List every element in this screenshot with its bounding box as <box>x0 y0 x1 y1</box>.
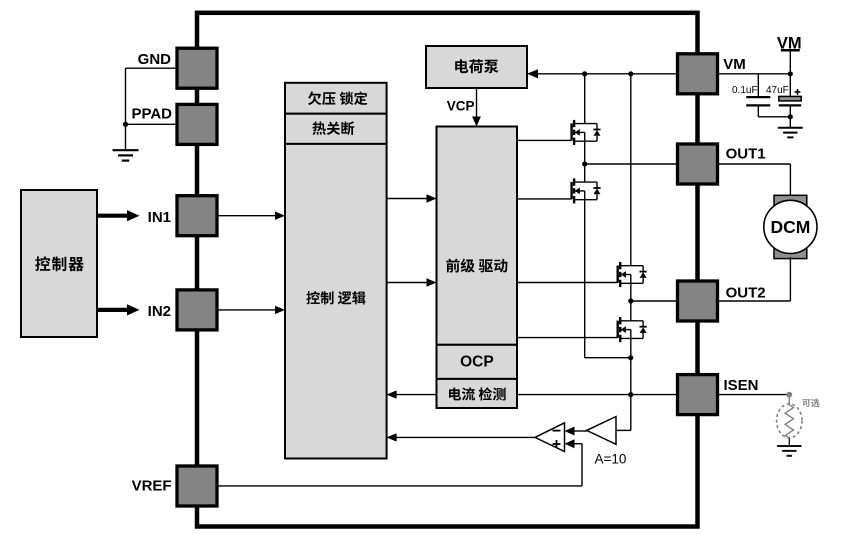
wire Q2 source down <box>584 200 586 358</box>
capacitor C2 47uF (electrolytic) <box>789 74 791 97</box>
wire ISEN node to buffer input <box>616 429 631 431</box>
svg-text:IN2: IN2 <box>148 303 171 320</box>
wire Q3 source to OUT2 node <box>630 283 632 321</box>
OCP block <box>437 345 518 379</box>
svg-text:OUT2: OUT2 <box>726 285 766 302</box>
wire OUT1 pin to motor <box>718 163 791 165</box>
wire VREF to plus input <box>218 485 582 487</box>
wire VM to Q1 drain <box>584 74 586 124</box>
pin IN2 <box>177 290 217 330</box>
svg-text:A=10: A=10 <box>595 452 627 467</box>
svg-text:VREF: VREF <box>132 478 172 495</box>
wire GND to external <box>126 67 178 69</box>
motor M1 body (DCM) <box>764 200 817 253</box>
svg-text:OUT1: OUT1 <box>726 145 766 162</box>
control logic block (控制逻辑) <box>285 144 387 459</box>
wire VM to Q3 drain <box>630 74 632 266</box>
motor brush top <box>774 195 807 205</box>
wire OUT2 pin to motor <box>718 300 791 302</box>
thick arrow controller to IN1 <box>97 214 127 218</box>
transistor Q3 (high-side OUT2) <box>617 266 619 283</box>
thick arrow controller to IN2 <box>97 308 127 312</box>
wire pre-driver to Q2 gate <box>517 198 572 200</box>
wire OUT1 node to OUT1 pin <box>585 163 678 165</box>
pin VM <box>678 54 718 94</box>
wire ISEN pin to sense resistor <box>718 394 790 396</box>
arrowhead into comparator minus <box>565 427 575 436</box>
control logic label 控制逻辑 <box>306 291 365 304</box>
wire GND-PPAD vertical <box>125 68 127 124</box>
svg-text:0.1uF: 0.1uF <box>732 85 758 96</box>
ground symbol (VM supply) <box>778 127 803 129</box>
svg-text:DCM: DCM <box>770 217 810 237</box>
UVLO label 欠压锁定 <box>308 92 367 106</box>
ground symbol (PPAD) <box>113 149 139 151</box>
wire plus input right <box>575 443 583 445</box>
arrowhead into comparator plus <box>565 439 575 448</box>
transistor Q4 (low-side OUT2) <box>617 321 619 338</box>
pin ISEN <box>678 375 718 415</box>
current sense block (电流检测) <box>437 379 518 408</box>
capacitor C1 0.1uF <box>757 74 759 97</box>
wire plus input down <box>581 444 583 486</box>
svg-text:ISEN: ISEN <box>724 377 759 394</box>
wire ISEN pin to current sense <box>517 394 678 396</box>
wire IN2 to control logic <box>218 309 277 311</box>
pin PPAD <box>177 104 217 144</box>
wire comparator output to control logic <box>395 436 535 438</box>
wire OUT2 node to OUT2 pin <box>631 300 678 302</box>
wire Q1 source to OUT1 node <box>584 141 586 164</box>
C2 plus polarity mark <box>795 91 801 93</box>
wire PPAD node to ground <box>125 124 127 150</box>
svg-text:47uF: 47uF <box>766 85 789 96</box>
wire resistor to ground <box>788 438 790 446</box>
svg-text:GND: GND <box>138 51 172 68</box>
wire control logic to pre-driver (upper) <box>387 198 428 200</box>
amplifier A1 comparator <box>535 423 565 452</box>
wire VM to charge pump <box>536 73 678 75</box>
svg-text:VCP: VCP <box>447 99 475 114</box>
wire VM pin to supply node <box>718 73 791 75</box>
transistor Q2 (low-side OUT1) <box>570 182 572 199</box>
wire OUT1 node to Q2 drain <box>584 164 586 182</box>
optional label 可选 <box>802 399 819 408</box>
pin GND <box>177 48 217 88</box>
node OUT1 junction dot <box>582 161 587 166</box>
junction dot on VM line (bridge A) <box>582 71 587 76</box>
svg-text:VM: VM <box>723 56 746 73</box>
UVLO block (欠压锁定) <box>285 83 387 114</box>
pin OUT1 <box>678 144 718 184</box>
svg-text:IN1: IN1 <box>148 209 171 226</box>
charge pump label 电荷泵 <box>455 59 498 73</box>
wire to optional resistor <box>788 397 790 405</box>
controller label 控制器 <box>35 256 84 271</box>
wire Q2 source to sense node <box>585 357 631 359</box>
optional marker dashed ellipse <box>777 404 802 438</box>
charge pump block (电荷泵) <box>426 46 527 88</box>
wire control logic to pre-driver (lower) <box>387 282 428 284</box>
junction dot ISEN node <box>628 392 633 397</box>
junction dot sources node <box>628 355 633 360</box>
transistor Q1 (high-side OUT1) <box>570 123 572 140</box>
thermal shutdown block (热关断) <box>285 114 387 144</box>
thermal shutdown label 热关断 <box>313 121 355 135</box>
node OUT2 junction dot <box>628 298 633 303</box>
motor brush bottom <box>774 249 807 259</box>
wire buffer output to comparator <box>575 430 587 432</box>
junction dot VM node <box>788 71 793 76</box>
IC boundary (driver chip outline) <box>197 13 698 527</box>
resistor R-sense (optional) zigzag <box>785 405 793 438</box>
pin OUT2 <box>678 281 718 321</box>
svg-text:PPAD: PPAD <box>131 106 172 123</box>
junction dot on VM line (bridge B) <box>628 71 633 76</box>
junction dot PPAD node <box>123 122 128 127</box>
VCP arrow charge pump to pre-driver <box>476 88 478 118</box>
node terminal dot (optional resistor) <box>786 392 792 398</box>
wire IN1 to control logic <box>218 215 277 217</box>
pre-driver block (前级驱动) <box>437 127 518 345</box>
wire pre-driver to Q3 gate <box>517 282 618 284</box>
ground symbol (sense resistor) <box>777 445 801 447</box>
wire Q4 source down to ISEN <box>630 338 632 430</box>
controller box (控制器) <box>21 190 97 337</box>
wire pre-driver to Q4 gate <box>517 337 618 339</box>
pin IN1 <box>177 196 217 236</box>
pin VREF <box>177 466 217 506</box>
wire to supply ground <box>789 117 791 128</box>
svg-text:VM: VM <box>777 34 802 52</box>
pre-driver label 前级驱动 <box>446 259 507 273</box>
wire PPAD to junction <box>126 123 178 125</box>
svg-text:OCP: OCP <box>460 354 494 371</box>
wire pre-driver to Q1 gate <box>517 139 572 141</box>
wire current sense to control logic <box>395 394 437 396</box>
current sense label 电流检测 <box>449 387 506 400</box>
amplifier A2 buffer (A=10) <box>587 417 616 445</box>
VM supply rail symbol <box>781 49 800 52</box>
junction dot ground node <box>788 114 793 119</box>
